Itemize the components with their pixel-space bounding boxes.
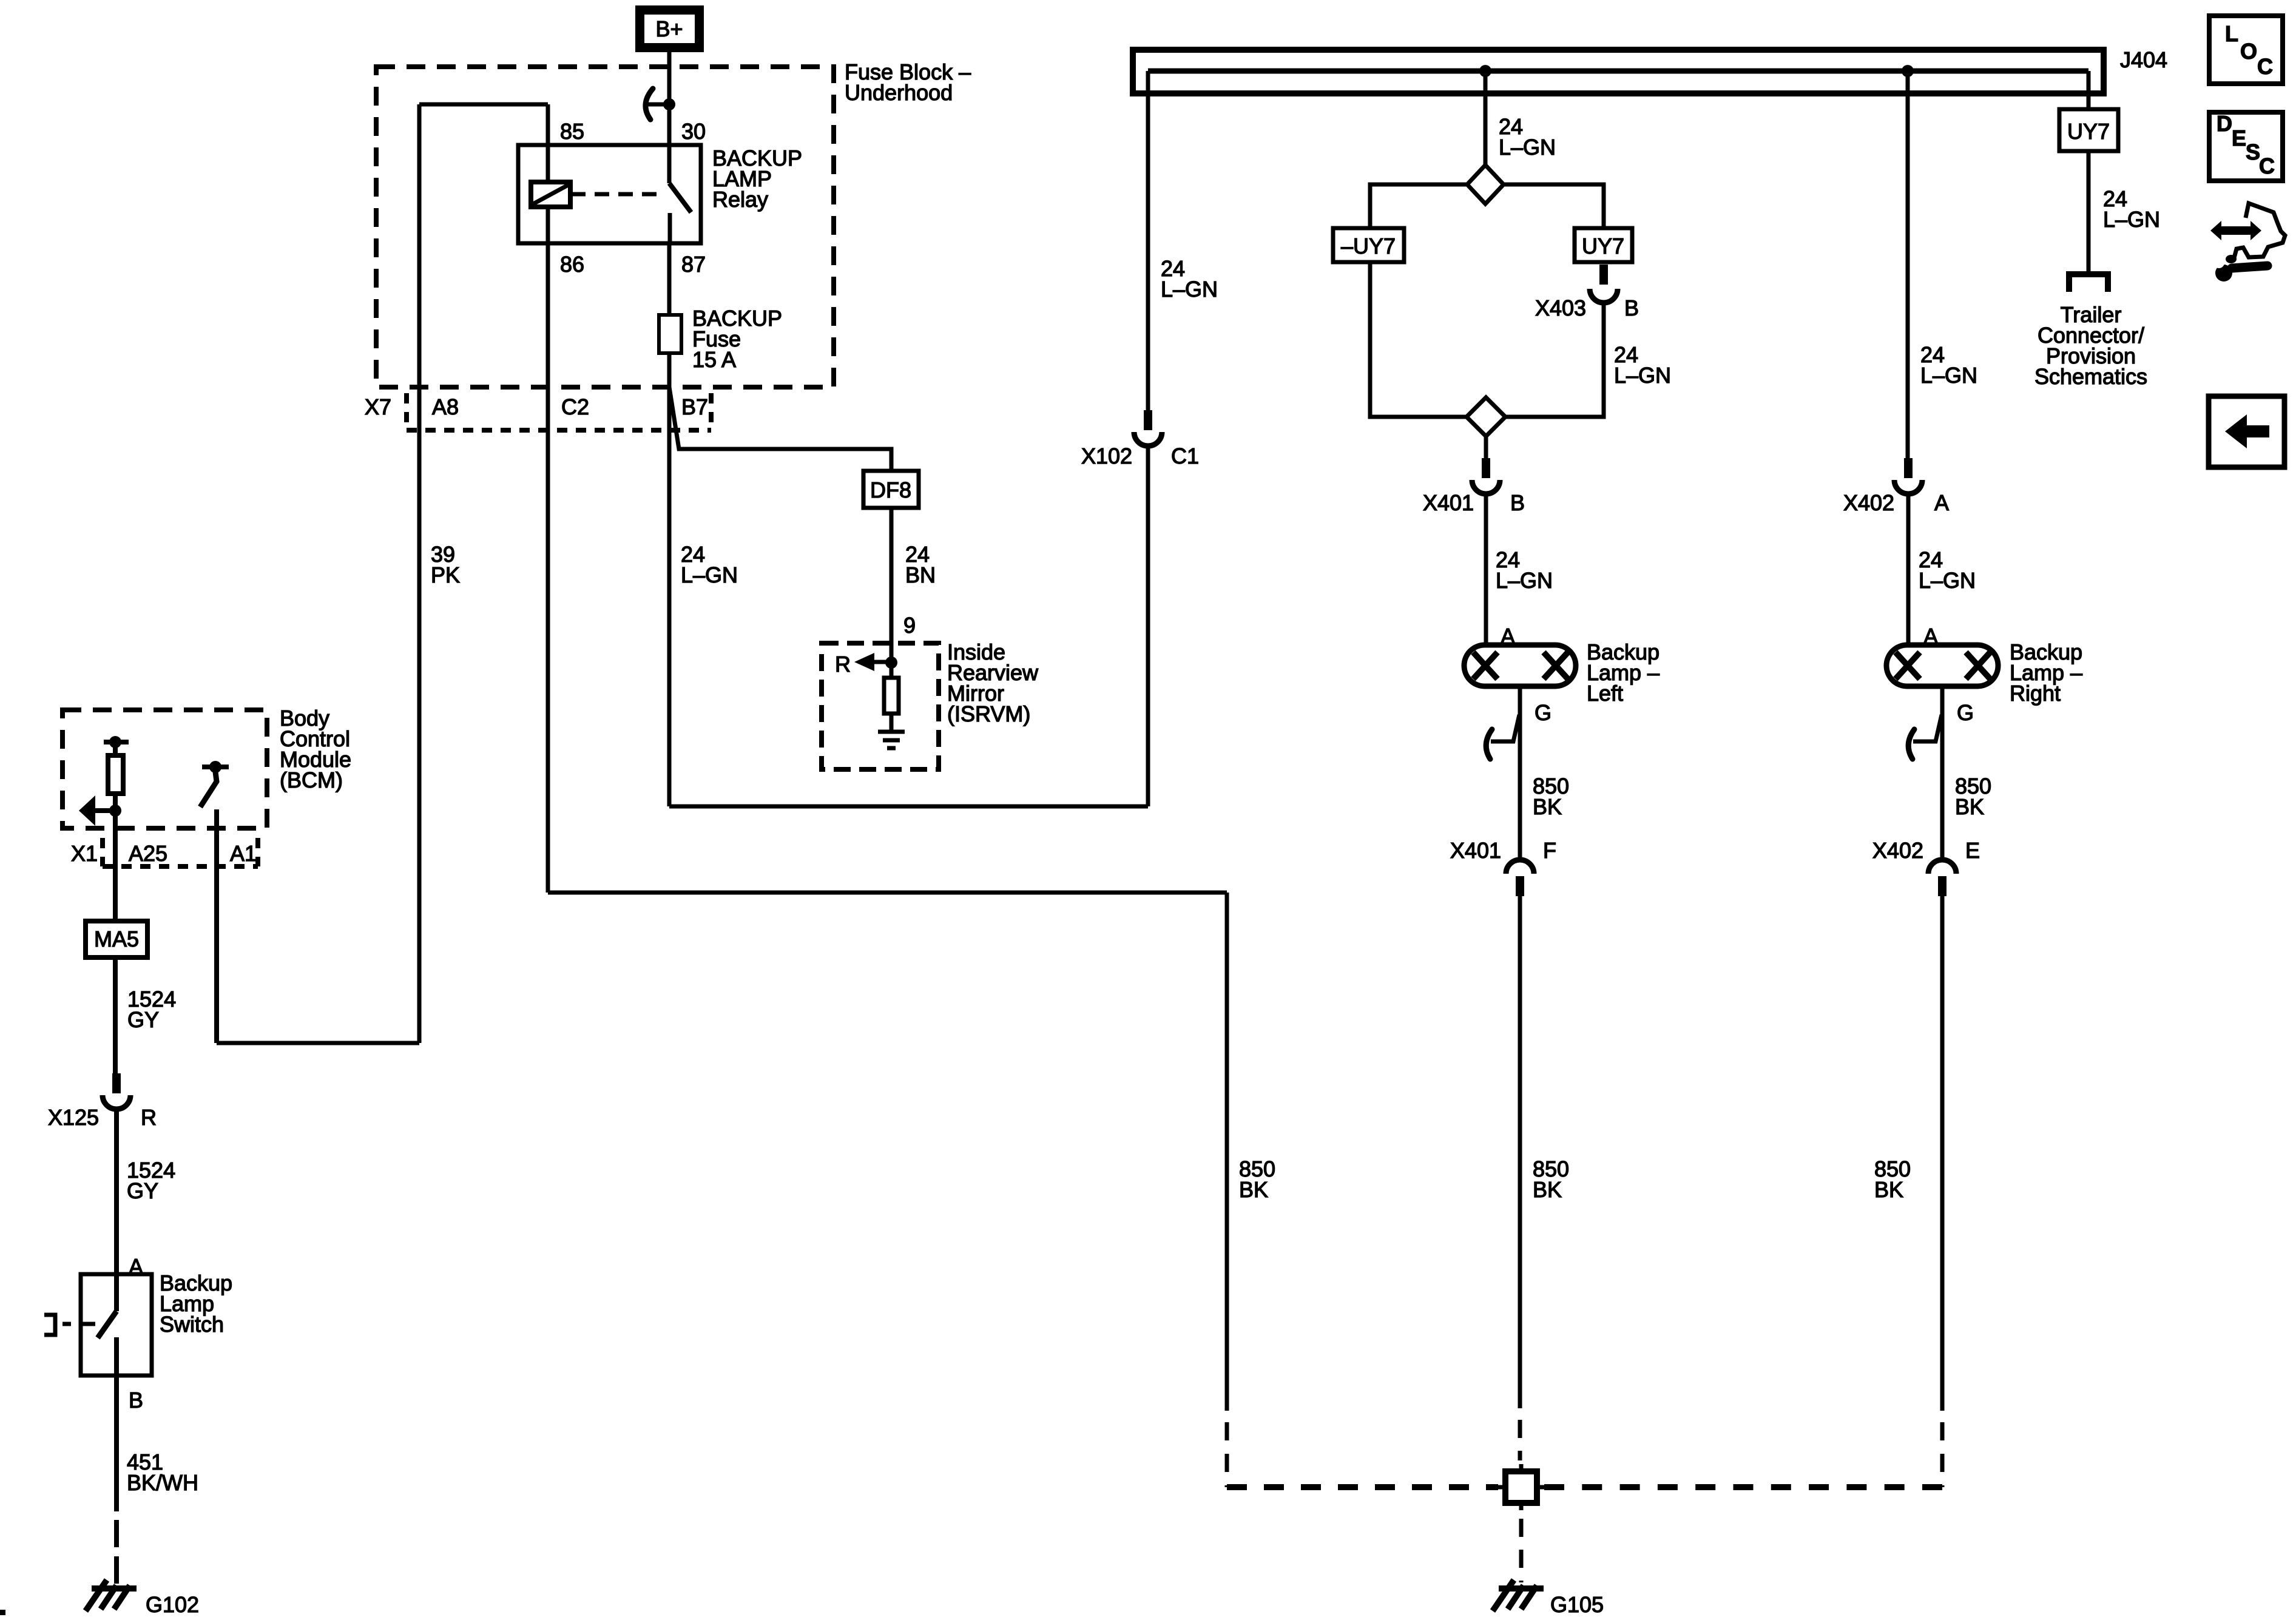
svg-text:L–GN: L–GN — [1919, 568, 1976, 593]
svg-text:X402: X402 — [1843, 490, 1894, 515]
svg-text:A8: A8 — [432, 394, 459, 419]
svg-text:G: G — [1535, 700, 1551, 725]
svg-text:D: D — [2217, 111, 2232, 136]
svg-text:BK: BK — [1874, 1177, 1903, 1202]
svg-text:X401: X401 — [1423, 490, 1474, 515]
svg-text:Switch: Switch — [160, 1312, 224, 1337]
svg-text:BK: BK — [1239, 1177, 1268, 1202]
svg-text:L–GN: L–GN — [1496, 568, 1553, 593]
svg-text:B: B — [1510, 490, 1525, 515]
svg-text:J404: J404 — [2120, 47, 2167, 72]
svg-text:C1: C1 — [1171, 444, 1199, 468]
svg-text:A25: A25 — [129, 841, 167, 866]
svg-text:X1: X1 — [71, 841, 98, 866]
svg-text:UY7: UY7 — [1582, 234, 1624, 258]
svg-text:C: C — [2257, 54, 2273, 79]
svg-text:85: 85 — [560, 119, 584, 144]
svg-text:B: B — [129, 1388, 143, 1413]
svg-text:30: 30 — [681, 119, 706, 144]
svg-text:G105: G105 — [1550, 1592, 1604, 1617]
svg-text:BK: BK — [1955, 794, 1984, 819]
svg-text:X7: X7 — [365, 394, 391, 419]
svg-text:L–GN: L–GN — [1161, 277, 1218, 302]
svg-text:BK: BK — [1533, 1177, 1562, 1202]
svg-text:G102: G102 — [146, 1592, 199, 1617]
svg-text:E: E — [2232, 126, 2246, 150]
svg-text:B+: B+ — [655, 16, 683, 41]
svg-text:X125: X125 — [48, 1105, 99, 1130]
svg-text:L: L — [2225, 21, 2238, 46]
svg-text:PK: PK — [431, 562, 460, 587]
svg-text:S: S — [2246, 140, 2260, 164]
svg-text:–UY7: –UY7 — [1341, 234, 1396, 258]
svg-text:UY7: UY7 — [2067, 119, 2110, 144]
svg-text:(BCM): (BCM) — [280, 768, 343, 792]
svg-text:C: C — [2259, 154, 2275, 178]
svg-text:X401: X401 — [1450, 838, 1501, 863]
svg-text:Left: Left — [1587, 681, 1623, 706]
svg-text:DF8: DF8 — [870, 478, 911, 502]
svg-text:Relay: Relay — [712, 187, 768, 212]
svg-text:B7: B7 — [681, 394, 708, 419]
svg-text:Right: Right — [2010, 681, 2061, 706]
svg-text:O: O — [2240, 39, 2257, 64]
svg-text:E: E — [1965, 838, 1980, 863]
svg-text:F: F — [1543, 838, 1556, 863]
svg-text:9: 9 — [903, 613, 916, 638]
svg-text:B: B — [1624, 295, 1639, 320]
svg-text:L–GN: L–GN — [2103, 207, 2160, 232]
svg-text:Underhood: Underhood — [845, 80, 953, 105]
svg-text:MA5: MA5 — [94, 927, 139, 951]
svg-text:86: 86 — [560, 252, 584, 277]
svg-text:Schematics: Schematics — [2034, 364, 2147, 389]
svg-text:A1: A1 — [230, 841, 257, 866]
svg-text:L–GN: L–GN — [1614, 363, 1671, 388]
svg-text:G: G — [1957, 700, 1974, 725]
svg-text:L–GN: L–GN — [1499, 135, 1556, 160]
svg-text:R: R — [141, 1105, 157, 1130]
svg-text:GY: GY — [127, 1178, 158, 1203]
svg-text:BN: BN — [905, 562, 936, 587]
svg-text:15 A: 15 A — [692, 347, 736, 372]
svg-text:C2: C2 — [561, 394, 589, 419]
svg-text:BK/WH: BK/WH — [127, 1470, 198, 1495]
svg-text:BK: BK — [1533, 794, 1562, 819]
svg-text:R: R — [835, 652, 851, 677]
svg-text:L–GN: L–GN — [681, 562, 738, 587]
svg-text:X102: X102 — [1081, 444, 1132, 468]
svg-text:(ISRVM): (ISRVM) — [947, 701, 1030, 726]
svg-text:87: 87 — [681, 252, 706, 277]
svg-text:L–GN: L–GN — [1920, 363, 1977, 388]
svg-text:X402: X402 — [1872, 838, 1923, 863]
svg-text:A: A — [1934, 490, 1949, 515]
svg-text:X403: X403 — [1535, 295, 1586, 320]
svg-text:GY: GY — [127, 1007, 159, 1032]
